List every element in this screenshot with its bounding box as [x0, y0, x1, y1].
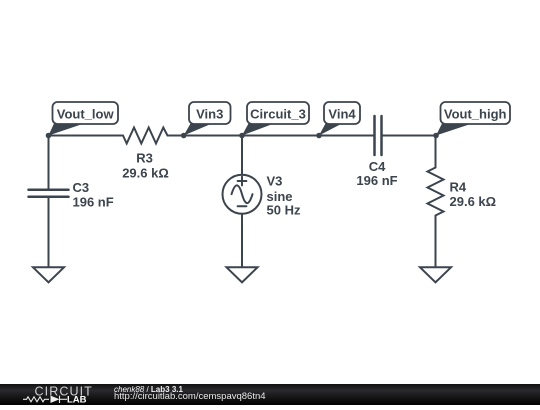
wire: C3 bottom to ground	[48, 197, 50, 267]
callout tail Vin4	[319, 124, 342, 136]
svg-text:Vin4: Vin4	[328, 107, 356, 122]
node Vout_low	[46, 133, 52, 139]
ground (middle)	[227, 267, 258, 282]
callout tail Vout_high	[436, 124, 472, 136]
node Vout_high	[433, 133, 439, 139]
svg-text:Vin3: Vin3	[196, 107, 223, 122]
node Circuit_3	[239, 133, 245, 139]
ground (right)	[420, 267, 451, 282]
svg-text:V3: V3	[267, 173, 283, 188]
svg-text:Vout_low: Vout_low	[57, 107, 115, 122]
wire: Circuit_3 node down to V3	[241, 136, 243, 175]
svg-text:R3: R3	[136, 151, 153, 166]
footer text line 1	[114, 385, 183, 394]
ground (left)	[33, 267, 64, 282]
resistor R4	[428, 168, 444, 216]
svg-text:29.6 kΩ: 29.6 kΩ	[122, 166, 169, 181]
callout box Circuit_3	[247, 102, 309, 124]
svg-text:50 Hz: 50 Hz	[267, 202, 301, 217]
svg-text:196 nF: 196 nF	[356, 173, 397, 188]
footer bar	[0, 384, 540, 405]
svg-text:R4: R4	[450, 180, 467, 195]
wire: left vertical stub (Vout_low node to C3)	[48, 136, 50, 190]
callout box Vin3	[189, 102, 231, 124]
label C4	[356, 159, 397, 188]
wire: main horizontal right segment (C4 right plate to Vout_high node)	[382, 135, 437, 137]
svg-text:C4: C4	[369, 159, 386, 174]
capacitor C3	[29, 190, 69, 197]
footer text line 2	[114, 391, 266, 402]
callout tail Vin3	[184, 124, 212, 136]
svg-text:C3: C3	[73, 180, 90, 195]
callout tail Circuit_3	[242, 124, 274, 136]
svg-text:29.6 kΩ: 29.6 kΩ	[450, 194, 497, 209]
label R3	[122, 151, 169, 181]
label C3	[73, 180, 114, 210]
svg-text:196 nF: 196 nF	[73, 195, 114, 210]
callout box Vin4	[324, 102, 360, 124]
label V3	[267, 173, 301, 217]
svg-text:LAB: LAB	[67, 395, 87, 405]
wire: R4 bottom to ground	[435, 216, 437, 268]
capacitor C4	[375, 116, 382, 155]
voltage source V3	[223, 175, 262, 214]
wire: Vout_high node down to R4	[435, 136, 437, 168]
node Vin4	[316, 133, 322, 139]
wire: main horizontal left segment (Vout_low node to R3)	[49, 135, 124, 137]
wire: main horizontal middle segment (R3 to C4 left plate)	[168, 135, 375, 137]
svg-text:Vout_high: Vout_high	[444, 107, 507, 122]
wire: V3 bottom to ground	[241, 214, 243, 267]
resistor R3	[123, 128, 168, 144]
callout box Vout_low	[53, 102, 119, 124]
callout tail Vout_low	[49, 124, 85, 136]
CircuitLab logo	[0, 384, 110, 405]
node Vin3	[181, 133, 187, 139]
callout box Vout_high	[441, 102, 511, 124]
svg-text:Circuit_3: Circuit_3	[250, 107, 306, 122]
label R4	[450, 180, 497, 210]
